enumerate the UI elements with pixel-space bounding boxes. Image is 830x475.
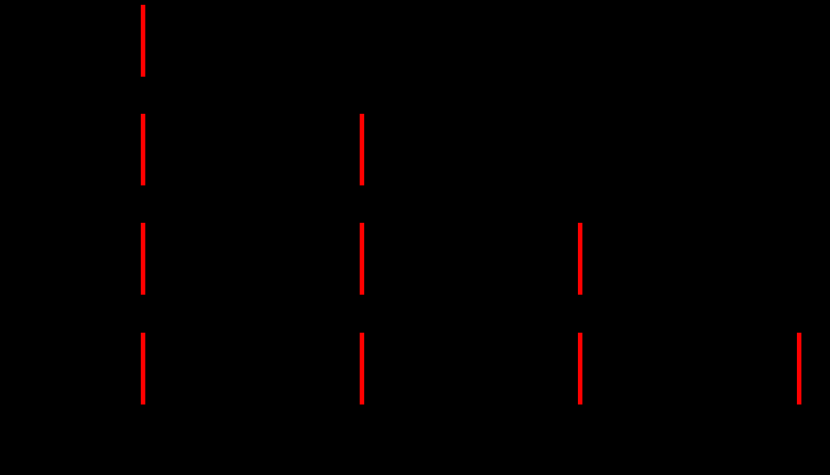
- resistor R7 (stage 4, string 1): [141, 333, 146, 405]
- resistor R5 (stage 3, string 2): [360, 223, 365, 295]
- wire rail node C (col1-col3): [143, 203, 580, 205]
- resistor R9 (stage 4, string 3): [578, 333, 583, 405]
- resistor R2 (stage 2, string 1): [141, 114, 146, 186]
- wire rail node B (col1-col2): [143, 94, 362, 96]
- wire bottom rail node E: [143, 439, 799, 441]
- resistor R4 (stage 3, string 1): [141, 223, 146, 295]
- wire rail node D (col1-col4): [143, 313, 799, 315]
- resistor R6 (stage 3, string 3): [578, 223, 583, 295]
- resistor R10 (stage 4, string 4): [797, 333, 802, 405]
- resistor R1 (stage 1, string 1): [141, 5, 146, 77]
- resistor R3 (stage 2, string 2): [360, 114, 365, 186]
- wire top rail node A: [142, 0, 144, 5]
- resistor R8 (stage 4, string 2): [360, 333, 365, 405]
